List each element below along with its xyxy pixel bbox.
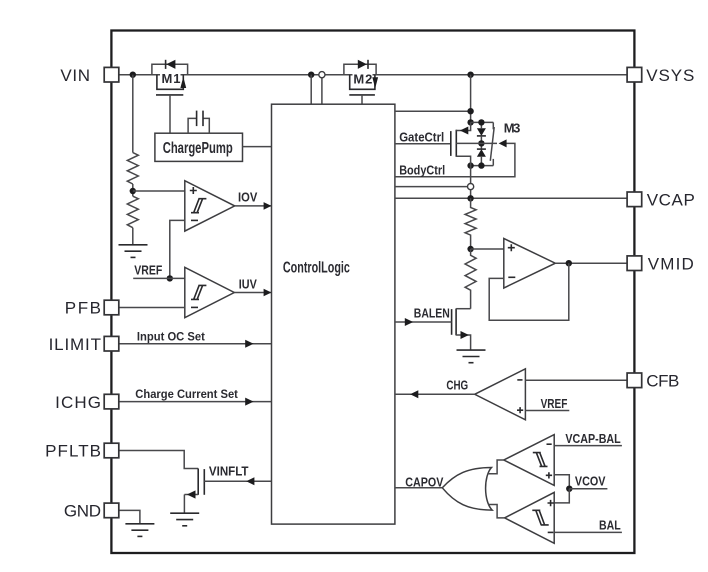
wire VREF to CHG + input [525,410,569,412]
wire VCOV [569,488,607,490]
M3 body select line [456,142,497,144]
M1 body diode branch [152,64,188,74]
gate OR CAPOV [442,460,504,518]
U5 plus sign [546,472,552,478]
wire ChargePump output to ControlLogic [243,146,272,148]
wire Q1 source to ground [183,495,185,514]
Q1 source lead [184,494,198,496]
wire GateCtrl [395,143,451,145]
pin VIN [104,67,119,82]
M1 channel [157,75,183,90]
U1 minus sign [191,219,198,221]
svg-text:GateCtrl: GateCtrl [399,129,444,144]
svg-text:VCOV: VCOV [575,474,606,489]
transistor M3 [451,75,521,202]
svg-text:CAPOV: CAPOV [405,474,443,489]
svg-text:PFLTB: PFLTB [45,442,101,461]
ground VINFLT [170,513,199,526]
M3 gate bar [450,131,452,156]
pin ICHG [104,394,119,409]
wire M2 gate to ControlLogic [361,95,363,104]
svg-text:PFB: PFB [65,299,101,318]
transistor Q1 VINFLT NMOS [184,469,204,514]
pin ILIMIT [104,336,119,351]
Q2 channel bar [455,309,457,336]
node M3 branch on rail [467,72,473,78]
U1 hysteresis icon [191,199,206,213]
Q1 source arrow [187,490,196,498]
M3 drain lead [456,122,470,130]
node M3 drain [467,119,473,125]
node R3 tap [467,246,473,252]
diode M2 body [358,60,367,69]
U4 plus sign [517,407,523,413]
pin CFB [627,373,642,388]
comparator U1 IOV [185,181,235,231]
U1 plus sign [190,187,197,194]
ground BALEN [457,350,486,363]
wire VIN divider vertical [132,75,134,153]
wire ILIMIT Input OC Set [119,343,272,345]
M1 source arrow [180,77,186,88]
svg-text:VMID: VMID [648,254,694,273]
M1 label [160,73,181,85]
svg-text:CHG: CHG [446,377,468,392]
svg-text:GND: GND [64,502,101,521]
node open circle on rail [319,72,325,78]
pin GND [104,503,119,518]
M3 body switch contacts [492,122,494,129]
wire VREF [133,277,185,279]
resistor R4 [465,249,476,309]
svg-text:VSYS: VSYS [646,66,694,85]
wire ControlLogic to M3 top [395,110,471,112]
diode body D2 [480,136,482,149]
U3 plus sign [508,244,515,251]
resistor R2 [127,196,138,227]
comparator U2 IUV [185,267,235,317]
node VCOV [566,486,572,492]
comparator U5 VCAP-BAL [504,435,554,486]
ChargePump block [155,133,243,161]
Q2 source lead to ground [456,335,471,350]
wire tap to VMID + [471,248,504,250]
svg-text:BALEN: BALEN [414,305,450,320]
wire BodyCtrl [395,143,515,176]
svg-text:VCAP: VCAP [647,191,695,210]
wire U6 output to OR input [488,505,504,518]
wire M3 drain node [471,121,494,123]
wire CHG output [395,393,475,395]
M3 drain arrow [460,127,468,135]
wire BAL [554,531,622,533]
transistor M1 [152,60,188,133]
wire PFB to IUV - input [119,307,185,309]
pin VMID [627,256,642,271]
ground GND pin [125,524,154,537]
node M3 source [467,162,473,168]
wire VCAP-BAL [554,445,622,447]
wire U5 output to OR input [488,460,504,474]
svg-text:VREF: VREF [541,396,568,411]
U5 hysteresis icon [533,453,548,467]
wire GND to ground [119,510,140,523]
Q2 source arrow [461,331,469,339]
transistor Q2 BALEN NMOS [452,309,471,351]
wire VREF to IOV - input [170,220,185,278]
Q2 gate bar [451,309,453,335]
M3 body switch blade [490,127,494,161]
svg-text:VINFLT: VINFLT [209,463,249,478]
M2 channel [350,75,375,90]
U5 minus sign [547,443,552,445]
node VCAP rail junction [467,195,473,201]
resistor R1 [127,153,138,184]
wire stub open-circle to ControlLogic [321,78,323,105]
U6 plus sign [548,500,554,506]
wire VCAP-BAL + to VCOV [554,475,569,489]
wire ICHG Charge Current Set [119,401,272,403]
wire rail to M3 drain [470,75,472,123]
svg-text:CFB: CFB [646,372,679,391]
Q1 channel bar [197,469,199,495]
wire tap to IOV + input [133,190,185,192]
diode M1 body [165,60,167,69]
wire VMID feedback [489,263,569,320]
svg-text:M2: M2 [353,72,372,87]
svg-text:M3: M3 [504,120,521,135]
U2 hysteresis icon [191,285,206,299]
U6 hysteresis icon [532,510,548,525]
wire IOV output [235,205,272,207]
wire VINFLT gate from ControlLogic [204,480,271,482]
op-amp U3 VMID buffer [504,239,556,289]
pin PFB [104,300,119,315]
svg-text:ILIMIT: ILIMIT [49,335,101,354]
node M3 ctrl junction [467,108,473,114]
svg-text:ControlLogic: ControlLogic [283,260,350,277]
node divider tap [130,188,136,194]
U6 minus sign [548,531,554,533]
svg-text:VREF: VREF [134,263,162,278]
svg-text:IUV: IUV [239,277,257,292]
svg-text:Input OC Set: Input OC Set [137,329,205,343]
IC outer border [111,31,634,554]
pin VCAP [627,192,642,207]
M3 channel bar [455,130,457,157]
svg-text:VIN: VIN [60,66,90,85]
wire R1 to R2 [132,184,134,196]
svg-text:Charge Current Set: Charge Current Set [135,387,238,401]
node VREF junction [167,275,173,281]
svg-text:BAL: BAL [599,517,621,532]
U3 minus sign [508,276,515,278]
Q1 gate bar [203,469,205,495]
wire IUV output [234,292,271,294]
M1 gate plate [156,94,183,96]
resistor R3 [465,198,476,249]
capacitor flying cap icon [188,111,209,134]
Q2 drain lead [456,308,471,310]
wire M1 gate to ChargePump [169,95,171,133]
node rail to logic [308,72,314,78]
comparator U6 BAL [505,492,555,543]
M2 body diode branch [344,64,376,74]
U4 minus sign [517,379,522,381]
transistor M2 [344,60,378,104]
svg-text:VCAP-BAL: VCAP-BAL [565,431,620,446]
M3 source lead [456,156,470,165]
svg-text:ICHG: ICHG [55,393,101,412]
diode body D1 [480,122,482,128]
wire top rail VIN-VSYS [119,74,627,76]
wire VCOV to BAL + [554,489,569,503]
node VIN divider tap [130,72,136,78]
M2 gate plate [349,94,375,96]
wire BALEN gate [395,321,452,323]
M2 source arrow [372,77,378,88]
U2 minus sign [191,306,198,308]
svg-text:M1: M1 [162,71,181,86]
ControlLogic block [272,104,395,524]
wire M3 to VCAP rail [470,166,472,199]
wire ControlLogic to open circle [395,186,471,188]
wire M3 source node [471,165,494,167]
wire CFB to CHG - input [525,379,627,381]
wire VMID output [555,262,627,264]
wire CAPOV output [395,487,442,489]
pin PFLTB [104,443,119,458]
ground divider [119,245,148,258]
wire VCAP rail [395,197,627,199]
wire R2 to ground [132,228,134,245]
wire stub rail to ControlLogic [310,75,312,105]
comparator U4 CHG [475,369,526,420]
svg-text:IOV: IOV [238,190,258,205]
svg-text:ChargePump: ChargePump [163,140,233,157]
M2 label [353,73,373,85]
node open circle on M3 leg [468,184,474,190]
svg-text:BodyCtrl: BodyCtrl [399,162,445,177]
wire PFLTB to Q drain [119,451,198,469]
pin VSYS [627,67,642,82]
